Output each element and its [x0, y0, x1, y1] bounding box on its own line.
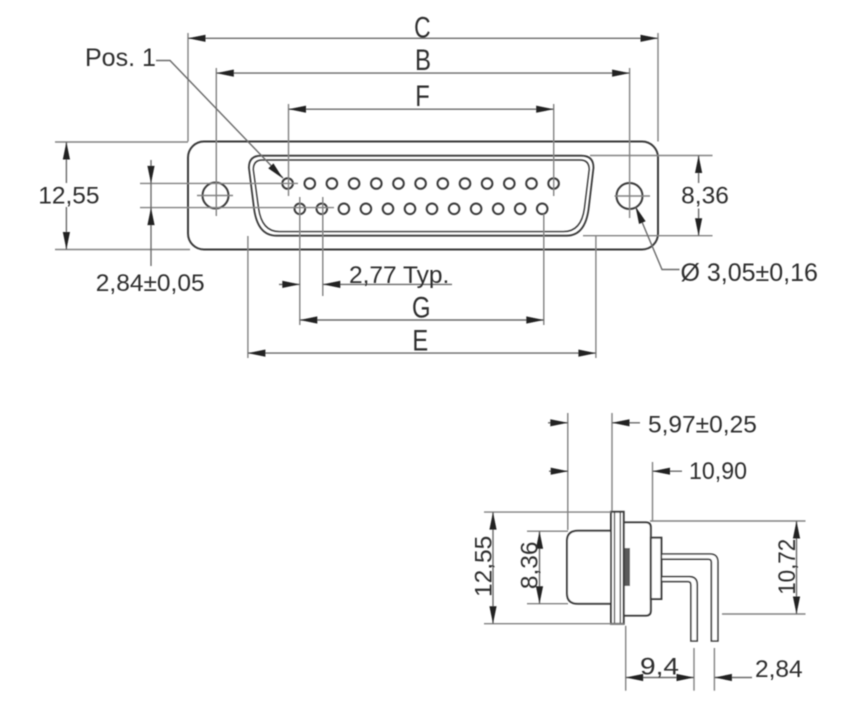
- D-shaped insert inner outline: [253, 160, 589, 232]
- arrow 9,4 right: [677, 674, 695, 681]
- dimension line 2,77 right tail under text: [323, 283, 452, 285]
- arrow 9,4 left: [626, 674, 644, 681]
- extension line shell front face up: [567, 413, 569, 530]
- svg-text:2,84±0,05: 2,84±0,05: [96, 270, 205, 297]
- arrow E left: [248, 350, 266, 357]
- extension line flange bottom left: [484, 623, 624, 625]
- svg-text:9,4: 9,4: [640, 654, 679, 681]
- extension line 10,72 top: [650, 520, 806, 522]
- extension line bottom pin1 column: [299, 197, 301, 325]
- dimension line 2,84 side tail: [714, 677, 752, 679]
- arrow 2,84 side: [714, 674, 732, 681]
- leader line Pos. 1: [156, 61, 283, 179]
- arrow 5,97 left: [550, 419, 568, 426]
- svg-text:F: F: [415, 80, 430, 113]
- svg-text:Pos. 1: Pos. 1: [85, 44, 156, 72]
- centreline left hole horizontal: [197, 195, 233, 197]
- top pin row (13 pins): [282, 178, 559, 189]
- arrow 2,84 up: [147, 208, 154, 226]
- insulator step: [651, 538, 662, 599]
- svg-text:2,77 Typ.: 2,77 Typ.: [349, 262, 449, 289]
- connector flange outline: [188, 142, 658, 250]
- arrow F left: [289, 106, 307, 113]
- svg-text:G: G: [412, 292, 431, 325]
- arrow G right: [526, 316, 544, 323]
- arrow B right: [612, 70, 630, 77]
- arrow 10,72 up: [793, 521, 800, 539]
- dimension line 2,77 left tail: [279, 283, 300, 285]
- arrow C right: [641, 35, 659, 42]
- extension line D bottom-right to E: [595, 236, 597, 358]
- arrow 10,90 left: [551, 468, 569, 475]
- arrow Pos.1 leader: [268, 163, 285, 181]
- arrow 12,55 down: [63, 232, 70, 250]
- arrow 12,55 up: [63, 142, 70, 160]
- pin top (long): [661, 554, 718, 641]
- dimension line G: [300, 319, 544, 321]
- svg-text:12,55: 12,55: [38, 183, 99, 210]
- arrow C left: [188, 35, 206, 42]
- flange inner line 1: [614, 512, 616, 624]
- rear shell block: [624, 522, 651, 615]
- bottom pin row (12 pins): [295, 204, 548, 215]
- extension line right hole centre vertical: [629, 68, 631, 218]
- svg-text:12,55: 12,55: [471, 536, 498, 597]
- extension line flange right to C: [657, 33, 659, 142]
- extension line flange bottom left: [55, 249, 190, 251]
- extension line flange back down: [625, 626, 627, 691]
- extension line bottom pin row left: [140, 207, 334, 209]
- flange inner line 2: [619, 512, 621, 624]
- D-shaped insert outer outline: [249, 156, 594, 236]
- extension line shell bottom left: [527, 603, 568, 605]
- dimension line 10,72: [796, 521, 798, 614]
- mounting hole left: [203, 183, 229, 209]
- svg-text:10,72: 10,72: [774, 539, 801, 595]
- svg-text:5,97±0,25: 5,97±0,25: [648, 412, 757, 439]
- arrow hole diameter leader: [632, 205, 645, 224]
- extension line flange top left: [484, 511, 611, 513]
- arrow 8,36 side up: [536, 531, 543, 549]
- dimension line 10,90 left tail: [549, 470, 568, 472]
- arrow 8,36 side down: [536, 586, 543, 604]
- dimension line 10,90 right tail: [653, 470, 683, 472]
- extension line pin short below: [693, 648, 695, 691]
- dimension line 12,55 upper part: [65, 142, 67, 183]
- arrow 10,72 down: [793, 597, 800, 615]
- mounting hole right: [617, 183, 643, 209]
- arrow 2,77 left outside: [282, 281, 300, 288]
- arrow B left: [216, 70, 234, 77]
- arrow 10,90 right: [653, 468, 671, 475]
- svg-text:C: C: [414, 12, 431, 45]
- extension line D bottom-left to E: [247, 236, 249, 358]
- dimension line F: [289, 108, 554, 110]
- svg-text:B: B: [415, 44, 431, 77]
- extension line shell top left: [527, 530, 568, 532]
- pin bottom (short): [661, 577, 697, 641]
- dimension line 5,97 left tail: [548, 422, 568, 424]
- arrow 2,84 down: [147, 166, 154, 184]
- dimension line 8,36 side: [539, 531, 541, 604]
- leader line hole diameter: [636, 207, 680, 270]
- extension line top pin row left: [140, 182, 298, 184]
- centreline right hole horizontal: [615, 195, 651, 197]
- extension line 10,72 bottom: [722, 613, 806, 615]
- svg-text:8,36: 8,36: [517, 541, 544, 589]
- extension line pin1 top column F: [288, 104, 290, 196]
- dimension line B: [216, 72, 629, 74]
- dimension line C: [188, 37, 658, 39]
- svg-text:Ø 3,05±0,16: Ø 3,05±0,16: [681, 259, 818, 287]
- dimension line 9,4: [626, 677, 694, 679]
- dimension line 5,97 right tail: [612, 422, 640, 424]
- extension line pin long below: [713, 648, 715, 691]
- extension line flange left to C: [187, 33, 189, 142]
- extension line left hole centre vertical: [215, 68, 217, 216]
- extension line D bottom right to 8,36: [583, 235, 713, 237]
- extension line flange front face up: [611, 413, 613, 511]
- extension line bottom pin2 column: [322, 197, 324, 296]
- arrow G left: [300, 316, 318, 323]
- dimension line 12,55 lower part: [65, 207, 67, 250]
- arrow 2,77 right outside: [323, 281, 341, 288]
- dimension line 2,84 vertical: [150, 160, 152, 266]
- svg-text:2,84: 2,84: [755, 656, 803, 683]
- mating shell side: [567, 531, 611, 604]
- svg-text:10,90: 10,90: [689, 458, 747, 485]
- extension line pin13 top column F: [553, 104, 555, 196]
- extension line flange top left: [55, 141, 188, 143]
- arrow 12,55 side down: [489, 606, 496, 624]
- arrow F right: [536, 106, 554, 113]
- extension line bottom pin12 column: [543, 214, 545, 325]
- arrow 5,97 right: [612, 419, 630, 426]
- extension line rear shell right up: [652, 462, 654, 522]
- arrow E right: [578, 350, 596, 357]
- flange plate: [611, 512, 624, 624]
- svg-text:E: E: [412, 325, 428, 358]
- dimension line 12,55 side: [492, 512, 494, 624]
- dimension line E: [248, 352, 596, 354]
- arrow 12,55 side up: [489, 512, 496, 530]
- svg-text:8,36: 8,36: [681, 183, 729, 210]
- 8,36 front dimension: [695, 156, 702, 236]
- extension line D top right to 8,36: [590, 155, 713, 157]
- insulator bar grey: [624, 548, 630, 586]
